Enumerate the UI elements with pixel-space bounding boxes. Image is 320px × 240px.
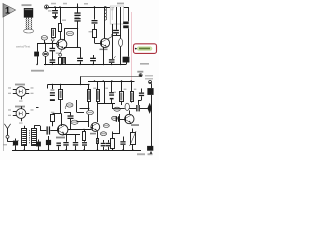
svg-text:1: 1: [5, 6, 10, 16]
svg-text:aerial/Test: aerial/Test: [16, 45, 30, 49]
